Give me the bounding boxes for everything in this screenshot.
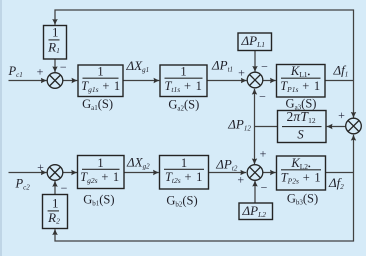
svg-text:1: 1 [181,156,187,170]
svg-text:TP2s + 1: TP2s + 1 [281,171,322,186]
svg-text:Ga3(S): Ga3(S) [286,96,317,111]
svg-text:Ga2(S): Ga2(S) [168,97,199,112]
svg-text:Ga1(S): Ga1(S) [82,97,113,112]
svg-text:−: − [261,181,268,195]
svg-text:−: − [61,181,68,195]
svg-text:Gb3(S): Gb3(S) [287,192,318,207]
svg-text:1: 1 [97,156,103,170]
svg-text:1: 1 [180,64,186,78]
svg-text:−: − [261,60,268,74]
svg-text:S: S [297,128,304,142]
svg-text:−: − [60,60,67,74]
svg-text:Tt2s + 1: Tt2s + 1 [165,170,203,185]
svg-text:1: 1 [97,64,103,78]
svg-text:+: + [237,173,244,187]
svg-text:+: + [37,64,44,78]
svg-text:+: + [260,147,267,161]
svg-text:1: 1 [52,25,59,40]
svg-text:1: 1 [52,195,59,210]
svg-text:Tg1s + 1: Tg1s + 1 [81,79,121,94]
svg-text:Gb2(S): Gb2(S) [166,194,197,209]
svg-text:+: + [238,65,245,79]
svg-text:+: + [37,160,44,174]
svg-text:Tg2s + 1: Tg2s + 1 [80,170,120,185]
svg-text:Tt1s + 1: Tt1s + 1 [164,79,202,94]
svg-text:Gb1(S): Gb1(S) [83,193,114,208]
svg-text:+: + [338,108,345,122]
svg-text:−: − [259,90,266,104]
svg-text:TP1s + 1: TP1s + 1 [280,79,321,94]
